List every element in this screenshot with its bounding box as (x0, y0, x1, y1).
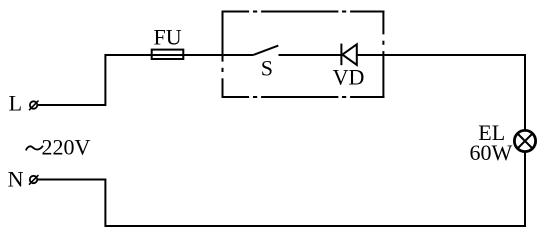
svg-text:N: N (8, 167, 24, 192)
svg-text:220V: 220V (42, 134, 91, 159)
svg-text:60W: 60W (470, 140, 513, 165)
svg-text:S: S (261, 56, 273, 81)
svg-text:L: L (9, 91, 22, 116)
svg-text:FU: FU (154, 25, 182, 50)
svg-text:VD: VD (333, 65, 365, 90)
